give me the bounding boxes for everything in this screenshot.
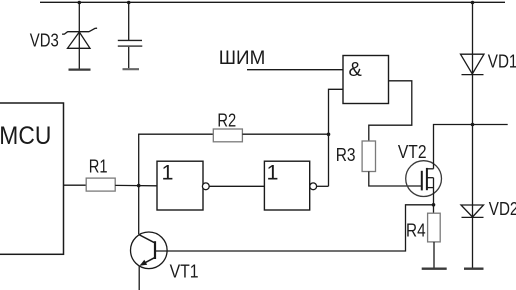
wire C1 top lead <box>128 2 130 40</box>
svg-text:R2: R2 <box>217 110 236 131</box>
VT2 source stub <box>427 187 434 189</box>
inverter DD1.1 output bubble <box>202 183 209 190</box>
VT2 channel bar <box>426 168 428 190</box>
wire VT2 drain up to output node <box>434 125 508 169</box>
transistor VT2 MOSFET body circle <box>406 161 442 197</box>
wire right rail top to VD1 <box>472 2 474 205</box>
diode VD1 <box>461 54 485 74</box>
wire top power rail <box>40 1 505 3</box>
svg-text:1: 1 <box>162 161 174 185</box>
diode VD2 <box>461 205 484 217</box>
wire VT1 base to node C <box>156 205 434 251</box>
wire R2 left <box>138 133 213 135</box>
junction dot rail/C1 <box>127 1 131 5</box>
wire left vertical R2/node A/VT1 collector <box>138 134 140 234</box>
ground bar under R4 <box>422 268 447 270</box>
wire VD2 anode down <box>472 205 474 268</box>
svg-text:VT2: VT2 <box>398 141 427 162</box>
svg-text:R1: R1 <box>89 155 108 176</box>
ground bar under C1 <box>123 68 140 70</box>
wire VD3 cathode lead <box>78 2 80 68</box>
svg-text:1: 1 <box>267 161 279 185</box>
inverter DD1.2 box <box>264 161 309 210</box>
node A junction dot <box>137 184 141 188</box>
svg-text:VT1: VT1 <box>170 261 199 282</box>
resistor R2 <box>213 129 242 142</box>
svg-text:VD2: VD2 <box>489 198 516 219</box>
wire R3 to VT2 gate <box>369 172 422 187</box>
capacitor C1 <box>118 39 142 41</box>
VT1 emitter lead down <box>138 266 140 290</box>
wire DD1.1 to DD1.2 <box>209 185 264 187</box>
resistor R3 <box>362 141 375 172</box>
VT2 gate bar <box>421 171 423 191</box>
resistor R4 <box>428 213 441 242</box>
wire MCU to R1 <box>64 184 87 186</box>
svg-text:VD1: VD1 <box>488 51 516 72</box>
wire DD1.2 output to right vertical <box>316 185 328 187</box>
AND gate DD2 box <box>343 56 389 104</box>
inverter DD1.2 output bubble <box>310 183 317 190</box>
ground bar under VD2 <box>464 268 484 270</box>
VT1 emitter diagonal with arrow <box>141 257 155 265</box>
VT2 drain stub <box>427 168 434 170</box>
node B junction dot <box>327 133 331 137</box>
wire C1 bottom lead <box>128 47 130 68</box>
wire VT2 source down to node C <box>433 178 435 214</box>
resistor R1 <box>86 178 115 191</box>
junction dot output node <box>471 123 475 127</box>
svg-text:R3: R3 <box>336 144 356 165</box>
wire right vertical node B to AND input and inverter output <box>329 89 344 186</box>
MCU box U1 <box>0 103 64 254</box>
wire R2 right to node B <box>242 133 328 135</box>
svg-text:MCU: MCU <box>0 122 51 150</box>
wire PWM to AND input <box>247 69 343 71</box>
inverter DD1.1 box <box>157 161 203 210</box>
VT1 collector diagonal <box>139 235 155 243</box>
svg-text:VD3: VD3 <box>30 29 59 50</box>
VT1 base bar <box>154 241 156 259</box>
svg-text:ШИМ: ШИМ <box>219 47 265 69</box>
node C junction dot <box>432 203 436 207</box>
wire AND output to R3 <box>369 81 412 141</box>
wire R1 to node A <box>115 184 157 186</box>
transistor VT1 body circle <box>131 232 168 269</box>
ground bar under VD3 <box>69 68 91 70</box>
zener diode VD3 <box>62 28 97 48</box>
junction dot rail/VD1 <box>471 1 475 5</box>
svg-text:R4: R4 <box>406 221 426 241</box>
junction dot rail/VD3 <box>78 1 82 5</box>
wire R4 bottom lead <box>433 242 435 268</box>
VT2 bulk stub <box>427 177 434 179</box>
svg-text:&: & <box>349 59 363 81</box>
